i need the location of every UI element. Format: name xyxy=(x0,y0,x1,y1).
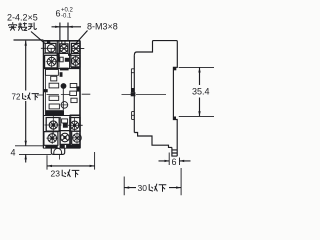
tab mounting hole xyxy=(54,148,62,154)
screw C2 box xyxy=(70,118,80,132)
bottom terminal block top line xyxy=(43,115,80,117)
dim 23 extension lines xyxy=(47,152,95,170)
label 23 yixia xyxy=(51,169,61,179)
label dark rect xyxy=(45,110,64,115)
label 8-M3x8 xyxy=(87,22,118,32)
dim 30 line xyxy=(124,187,181,189)
row gap darks xyxy=(57,53,60,56)
svg-text:72: 72 xyxy=(12,93,21,102)
upper tooth xyxy=(173,67,176,70)
label 35.4 xyxy=(192,87,210,97)
box below top block xyxy=(45,70,58,76)
left screw profile lower xyxy=(132,112,135,120)
bar under top block xyxy=(43,68,80,70)
screw A2 box xyxy=(60,44,68,54)
label 30 yixia xyxy=(138,183,148,193)
dim 6 arrows top xyxy=(52,26,82,28)
dim 6 +0.2 -0.1 text xyxy=(56,8,74,20)
dim 72 line xyxy=(25,41,27,146)
label 4 xyxy=(11,148,16,158)
middle band inner wall xyxy=(45,69,47,116)
hook ladder box xyxy=(172,147,177,156)
svg-text:23: 23 xyxy=(51,169,61,179)
slot mouth verticals xyxy=(62,41,65,44)
leader for mounting hole xyxy=(31,32,45,44)
middle band slots right xyxy=(70,84,77,88)
L2 line (tab bottom ref) xyxy=(19,153,51,155)
screw D2 box xyxy=(60,131,70,145)
svg-text:6: 6 xyxy=(56,9,61,19)
svg-text:8-M3×8: 8-M3×8 xyxy=(87,22,118,32)
horizontal centerline front xyxy=(37,93,90,96)
svg-text:35.4: 35.4 xyxy=(192,87,210,97)
screw A2 xyxy=(60,45,68,53)
screw A3 box xyxy=(71,43,80,53)
L1 line (body bottom ref) xyxy=(15,145,43,147)
leader 8-M3x8 xyxy=(74,31,88,46)
dim 30 extension lines xyxy=(124,168,181,195)
svg-text:4: 4 xyxy=(11,148,16,158)
screw D2 xyxy=(61,133,70,142)
bottom column separators xyxy=(60,116,71,149)
screw A1 box xyxy=(45,43,56,52)
dim 4 arrow below xyxy=(25,155,27,163)
center dark hole xyxy=(61,83,67,89)
screw C1 box xyxy=(46,118,59,132)
row gap lines xyxy=(43,53,71,55)
side left edge xyxy=(133,56,135,133)
screw A1 xyxy=(41,45,56,53)
left center blob xyxy=(131,92,136,96)
svg-text:30: 30 xyxy=(138,183,148,193)
screw C1 xyxy=(45,116,62,134)
label 2-4.2x5 xyxy=(7,13,38,23)
svg-text:6: 6 xyxy=(172,157,177,167)
svg-text:2-4.2×5: 2-4.2×5 xyxy=(7,13,38,23)
bottom tab xyxy=(51,148,64,154)
middle band slots left xyxy=(49,83,59,88)
dim 6 side arrows xyxy=(159,160,191,162)
dim 35.4 line xyxy=(199,68,201,117)
white slot above C2 xyxy=(70,115,81,118)
dark notch right wall xyxy=(76,86,79,91)
center slot row1 xyxy=(62,119,68,123)
dark under B3 xyxy=(71,67,80,69)
bottom bars dark xyxy=(45,145,57,148)
screw B1 box xyxy=(45,55,58,68)
side centerline xyxy=(122,93,167,95)
screw D3 xyxy=(72,132,82,143)
center circle xyxy=(61,102,68,109)
screw B3 box xyxy=(71,55,80,67)
side bottom staircase xyxy=(134,133,172,148)
svg-text:-0.1: -0.1 xyxy=(61,14,72,20)
slots row2 center xyxy=(60,57,63,62)
dim 35.4 extension lines xyxy=(179,67,214,116)
label 72 yixia xyxy=(12,93,21,102)
dim 6 extension lines xyxy=(60,23,68,41)
top mounting hole dark xyxy=(47,41,50,44)
label 6 side xyxy=(172,157,177,167)
side body outline xyxy=(134,41,177,157)
separator col1/col2 xyxy=(57,41,59,69)
wall blob left xyxy=(43,89,48,92)
right edge tick bottom row1 xyxy=(80,124,82,126)
tab center tick xyxy=(58,154,60,159)
screw D3 box xyxy=(72,132,81,145)
slot below xyxy=(51,76,57,81)
row2 center dark gap xyxy=(58,55,60,62)
dim 23 line xyxy=(47,165,95,167)
separator col2/col3 xyxy=(69,41,71,69)
dim 6 side extension lines xyxy=(169,153,179,166)
front view outline xyxy=(43,40,80,42)
screw A3 xyxy=(71,45,84,53)
screw B3 xyxy=(71,55,80,66)
right edge tick row1 xyxy=(80,48,84,50)
dim 72 extension line top xyxy=(14,39,44,41)
screw C2 xyxy=(68,118,83,131)
center vertical line xyxy=(62,84,64,110)
screw D1 box xyxy=(44,132,58,146)
dark notch right of box xyxy=(60,72,63,77)
screw D1 xyxy=(46,132,58,144)
left screw profile upper xyxy=(131,69,134,93)
lower tooth xyxy=(174,117,177,120)
screw B1 xyxy=(46,56,58,67)
label an-zhuang-kong (mounting hole) xyxy=(8,22,36,30)
